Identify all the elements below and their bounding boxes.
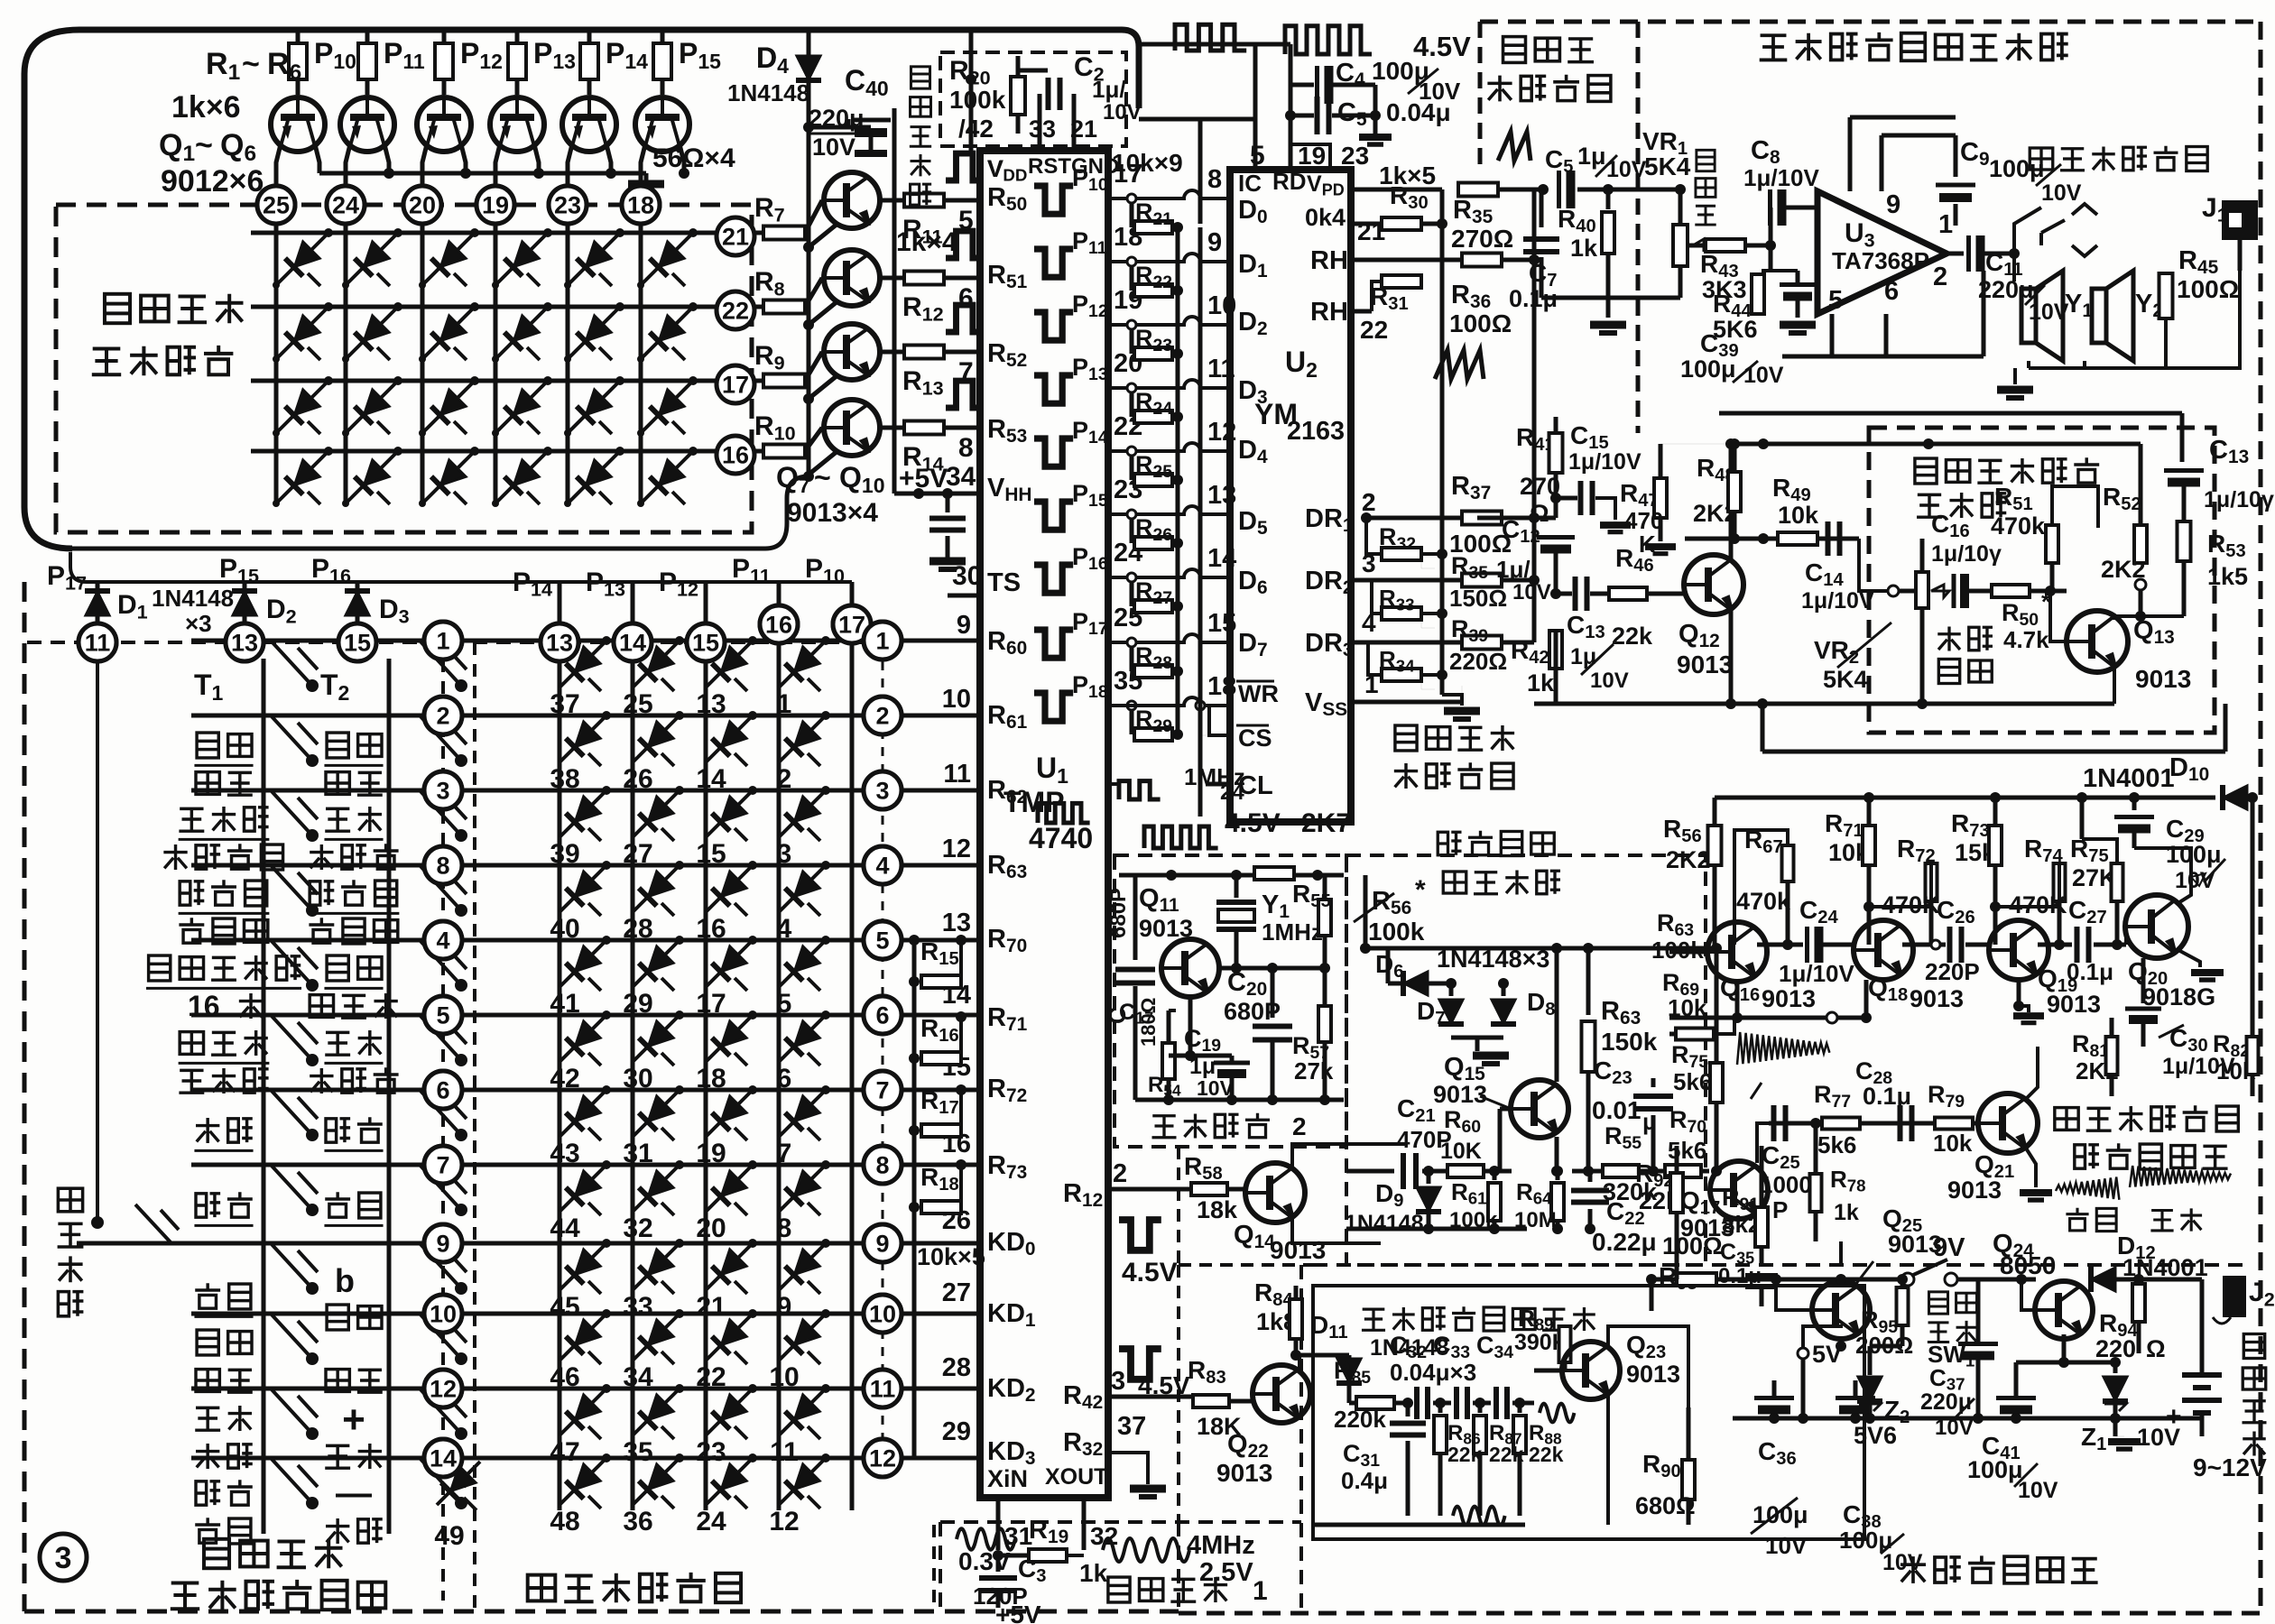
svg-text:10k×5: 10k×5 [917, 1243, 985, 1270]
svg-text:1N4148×3: 1N4148×3 [1437, 946, 1549, 973]
self-reset circuit box [892, 108, 897, 494]
wire matrix row 17 [251, 379, 716, 383]
svg-text:9013: 9013 [1433, 1081, 1487, 1108]
LED display matrix r3c4 [495, 381, 548, 433]
svg-text:10V: 10V [2175, 868, 2215, 893]
svg-text:100μ: 100μ [2166, 841, 2222, 868]
wire matrix column 18 [639, 223, 643, 503]
transistor Q19 9013 [1989, 920, 2048, 980]
switch T1 [271, 715, 312, 761]
wire CS jumper [1108, 704, 1178, 707]
wire bottom rail cymbal [1346, 1227, 1527, 1232]
U1 output P18 pin 35 [1034, 693, 1073, 721]
ground C7R40 [1606, 298, 1611, 318]
resistor R1 (P10 column) [296, 30, 301, 43]
diode D7 [1449, 983, 1454, 996]
svg-text:100k: 100k [1368, 918, 1425, 946]
resistors R86 R87 R88 [1438, 1403, 1443, 1413]
diode key 49 [437, 1462, 480, 1505]
wire row P18 to U2 [1108, 697, 1230, 706]
pulse glyphs P-rows [946, 153, 983, 180]
wire Q21 emitter ground [2025, 1147, 2036, 1187]
transistor Q4 9012 PNP [490, 97, 544, 152]
U1 output P16 pin 24 [1034, 565, 1073, 593]
diode column P15 D2 [243, 582, 247, 624]
svg-text:1k×6: 1k×6 [171, 90, 241, 125]
node right 3 [864, 771, 902, 809]
wire matrix row 22 [251, 305, 716, 309]
wire matrix column 24 [344, 223, 348, 503]
svg-text:2: 2 [1113, 1159, 1127, 1188]
global frame top dashed [1480, 20, 2261, 24]
diode key r10c2 [633, 1314, 680, 1361]
wire row 5 [191, 1013, 424, 1018]
diode key r7c4 [779, 1090, 826, 1137]
column P13 top [631, 582, 635, 623]
node right 11 [864, 1370, 902, 1407]
switch T2 [420, 790, 461, 835]
dashed circle column right matrix [882, 661, 884, 1453]
svg-text:100k: 100k [949, 86, 1006, 114]
resistor R8 [754, 305, 762, 309]
svg-text:28: 28 [623, 914, 652, 944]
svg-text:25: 25 [623, 689, 652, 719]
transistor Q1 9012 PNP [271, 97, 325, 152]
diode key r11c3 [706, 1389, 753, 1435]
wire Q25 [1839, 1279, 1844, 1281]
wire drum box to Q25 zone [1650, 1279, 1654, 1311]
wire circle column dashed left [441, 660, 445, 1601]
svg-text:8: 8 [958, 433, 974, 463]
svg-text:9013: 9013 [1762, 985, 1816, 1012]
svg-text:9: 9 [875, 1231, 889, 1258]
capacitor C31 0.4u [1406, 1403, 1410, 1416]
resistor R21 10k [1130, 198, 1134, 227]
wire row 12 [191, 1387, 424, 1391]
ground (Q1-Q6 bus) [628, 180, 664, 189]
svg-text:48: 48 [550, 1507, 579, 1536]
vertical label add drum sound [58, 1188, 82, 1212]
svg-text:~: ~ [195, 128, 213, 162]
capacitor C3 120P [993, 1550, 1003, 1561]
diode key r10c3 [706, 1314, 753, 1361]
wire 4.5V 2K7 rail [1119, 873, 1344, 878]
svg-text:10: 10 [942, 685, 971, 714]
dashed box edge between matrices [473, 642, 476, 1611]
svg-text:21: 21 [722, 224, 749, 251]
svg-text:150k: 150k [1601, 1028, 1658, 1056]
svg-text:100Ω: 100Ω [2177, 275, 2239, 303]
resistor R34 [1382, 669, 1421, 681]
wire row P13 to U2 [1108, 380, 1230, 388]
capacitor C13 1u/10V [1550, 588, 1561, 599]
wire emitter to bus [809, 224, 837, 247]
svg-text:23: 23 [554, 192, 581, 219]
wire VR1 wiper to R43 [1689, 244, 1706, 248]
wire 9V row [1651, 1278, 1902, 1282]
resistor R22 10k [1130, 262, 1134, 291]
wire Q12 collector [1729, 444, 1734, 561]
svg-text:CS: CS [1238, 724, 1272, 752]
wire column P10 [850, 643, 855, 1510]
capacitor C12 1u/10V [1537, 535, 1575, 540]
svg-text:1: 1 [1253, 1576, 1268, 1606]
diode key r8c3 [706, 1165, 753, 1212]
node pin 17 [717, 365, 754, 403]
wire legs [276, 144, 281, 186]
diode key r2c1 [560, 715, 606, 762]
svg-text:45: 45 [550, 1292, 579, 1322]
switch T2 [420, 1389, 461, 1434]
svg-text:180Ω: 180Ω [1137, 998, 1160, 1047]
drum box [1313, 1286, 1864, 1539]
svg-text:22k: 22k [1612, 623, 1653, 650]
wire Q15 emitter collector [1555, 1137, 1559, 1171]
svg-text:27: 27 [942, 1278, 971, 1307]
capacitor C26 220P [1902, 943, 1946, 947]
wire D4 column [807, 30, 811, 476]
noise icon drum sound [2056, 1177, 2119, 1200]
svg-text:10V: 10V [1765, 1532, 1808, 1559]
transistor Q13 9013 [2067, 611, 2128, 672]
wire row 8 [191, 863, 424, 868]
capacitor C37 220u/10V [1958, 1342, 1998, 1346]
node left 10 [424, 1295, 462, 1333]
wire top rail cymbal [1365, 946, 1716, 951]
svg-text:40: 40 [550, 914, 579, 944]
svg-text:5k6: 5k6 [1673, 1068, 1712, 1095]
wire Q14 emitter [1292, 1217, 1381, 1243]
diode key r10c1 [560, 1314, 606, 1361]
wire pull rail [1176, 227, 1180, 735]
wire XIN XOUT to clock1 [996, 1498, 1001, 1550]
resistor R6 (P15 column) [661, 30, 665, 43]
capacitor C11 220u/10V [1947, 252, 1964, 256]
label cymbal trigger [1438, 832, 1461, 855]
svg-text:0.4μ: 0.4μ [1341, 1467, 1388, 1494]
potentiometer VR2 5K4 [1916, 572, 1928, 608]
capacitor C5 0.04u [1285, 110, 1296, 121]
svg-text:2: 2 [436, 703, 449, 730]
sine 0.3V [957, 1528, 1015, 1549]
svg-text:XiN: XiN [987, 1465, 1028, 1492]
diode D6 [1388, 982, 1448, 986]
wire Q25 base node [1716, 1278, 1812, 1282]
svg-text:12: 12 [942, 835, 971, 863]
reset box dashed [940, 52, 1126, 146]
wire D7 D8 join [1451, 1036, 1503, 1040]
transistor Q22 9013 [1253, 1365, 1310, 1423]
wire matrix row 16 [251, 449, 716, 454]
svg-text:2: 2 [1933, 263, 1947, 291]
LED display matrix r4c3 [422, 451, 475, 503]
label drum trigger & osc [1362, 1309, 1385, 1330]
label keyboard control matrix [528, 1575, 556, 1601]
wire to VR2 row [1859, 539, 1888, 591]
wire Q13 emitter [2113, 664, 2116, 704]
wire R55 320k [1572, 1169, 1603, 1174]
node pins redraw left matrix [79, 623, 116, 661]
resistor R5 (P14 column) [587, 30, 592, 43]
LED display matrix r1c3 [422, 233, 475, 285]
svg-text:6: 6 [436, 1077, 449, 1104]
resistor R39 220ohm [1462, 636, 1502, 650]
diode D9 label wire [1177, 1147, 1180, 1265]
transistor Q17 9013 [1710, 1161, 1768, 1219]
svg-text:22: 22 [1360, 316, 1388, 344]
node left 1 [424, 622, 462, 660]
svg-text:43: 43 [550, 1139, 579, 1168]
wire link to accomp rail [1761, 704, 1765, 752]
svg-text:21: 21 [1070, 115, 1097, 143]
svg-text:5: 5 [436, 1002, 449, 1029]
diode key r9c2 [633, 1243, 680, 1290]
svg-text:26: 26 [623, 764, 652, 794]
svg-text:47: 47 [550, 1437, 579, 1467]
wire top feed line y645 [87, 580, 852, 584]
svg-text:150Ω: 150Ω [1449, 585, 1507, 612]
capacitor C17 680P [1115, 970, 1155, 983]
svg-text:XOUT: XOUT [1045, 1464, 1107, 1490]
svg-text:IC: IC [1238, 170, 1262, 197]
switch T2 [420, 1243, 461, 1288]
wire Q11 collector row [1219, 966, 1323, 971]
noise icon cymbal sound [2130, 1166, 2231, 1187]
transistor Q9 9013 [824, 324, 880, 380]
svg-text:9: 9 [1207, 228, 1222, 257]
svg-text:1k: 1k [1079, 1559, 1108, 1587]
svg-text:10k×9: 10k×9 [1112, 149, 1183, 177]
ground C1 [929, 558, 966, 566]
label accomp preamp circuit [1915, 458, 1937, 484]
svg-text:5k6: 5k6 [1817, 1131, 1856, 1158]
svg-text:8: 8 [436, 853, 449, 880]
node pins redraw keyboard cols [541, 623, 578, 661]
svg-text:5V6: 5V6 [1854, 1422, 1897, 1449]
wire matrix column 25 [274, 223, 279, 503]
wire clock2 bottom rail [1135, 1098, 1344, 1103]
sine 4MHz [1103, 1538, 1189, 1562]
svg-text:3: 3 [1111, 1367, 1125, 1396]
label melodic output circuit [1503, 37, 1526, 63]
svg-text:100μ: 100μ [1680, 355, 1736, 383]
resistor R15 10k [909, 976, 920, 987]
svg-text:1: 1 [777, 689, 792, 719]
dashed rail 9V row [1179, 1263, 1227, 1267]
wire bottom rail Q16 row [1669, 1016, 1866, 1020]
svg-text:4MHz: 4MHz [1187, 1531, 1255, 1560]
svg-text:220P: 220P [1925, 958, 1980, 985]
svg-text:11: 11 [85, 630, 111, 657]
svg-text:5k6: 5k6 [1668, 1137, 1706, 1164]
svg-text:9013: 9013 [1888, 1231, 1942, 1258]
svg-text:680P: 680P [1106, 888, 1131, 938]
svg-text:220Ω: 220Ω [1449, 648, 1507, 675]
node right 8 [864, 1146, 902, 1184]
LED display matrix r4c5 [568, 451, 620, 503]
LED display matrix r3c3 [422, 381, 475, 433]
wire corner x1262 to x1330 [1139, 117, 1200, 122]
svg-text:~: ~ [242, 47, 260, 81]
svg-text:8: 8 [1207, 165, 1222, 194]
svg-text:42: 42 [550, 1064, 579, 1093]
diode key r8c4 [779, 1165, 826, 1212]
node right 5 [864, 921, 902, 959]
svg-text:1N4148: 1N4148 [727, 79, 809, 106]
node left 3 [424, 771, 462, 809]
svg-text:24: 24 [696, 1507, 726, 1536]
svg-text:29: 29 [623, 989, 652, 1019]
node right 1 [864, 622, 902, 660]
svg-text:1μ/10V: 1μ/10V [1779, 960, 1855, 987]
transistor Q12 9013 [1684, 555, 1743, 614]
switch T1 [271, 1090, 312, 1135]
svg-text:5K6: 5K6 [1713, 316, 1758, 343]
svg-text:9013×4: 9013×4 [787, 498, 878, 528]
svg-text:1k×4: 1k×4 [896, 227, 957, 257]
svg-text:100μ: 100μ [1967, 1456, 2023, 1483]
svg-text:b: b [335, 1262, 355, 1299]
transistor Q8 9013 [824, 250, 880, 306]
svg-text:8: 8 [875, 1152, 889, 1179]
svg-text:8: 8 [777, 1213, 792, 1243]
resistor R33 [1382, 607, 1421, 620]
svg-text:7: 7 [436, 1152, 449, 1179]
transistor Q3 9012 PNP [417, 97, 471, 152]
diode key r5c1 [560, 940, 606, 987]
wire row 1 [191, 639, 424, 643]
resistor R54 180ohm [1162, 1043, 1175, 1079]
resistor R7 [754, 231, 762, 235]
svg-text:17: 17 [838, 612, 865, 639]
jack J2 [2223, 1276, 2246, 1317]
LED display matrix r2c6 [641, 307, 693, 359]
svg-text:2: 2 [777, 764, 792, 794]
resistor R23 10k [1130, 325, 1134, 354]
svg-text:2K7: 2K7 [1301, 808, 1351, 838]
node pin 23 [549, 186, 587, 224]
switch T2 [420, 865, 461, 910]
switch T1 [271, 641, 312, 686]
crystal Y1 1MHz [1235, 875, 1239, 898]
label accomp volume [1937, 627, 1961, 651]
resistor R70 5k6 [1639, 1169, 1665, 1174]
wire row 7 [191, 1163, 424, 1167]
diode key r11c1 [560, 1389, 606, 1435]
svg-text:Ω: Ω [2146, 1335, 2166, 1362]
wire VSS [1354, 700, 1462, 705]
svg-text:6: 6 [777, 1064, 792, 1093]
resistor R78 1k [1810, 1118, 1821, 1129]
svg-text:37: 37 [550, 689, 579, 719]
transistor Q25 9013 regulator [1812, 1281, 1870, 1339]
diode key r1c3 [706, 641, 753, 687]
svg-text:9013: 9013 [1216, 1459, 1272, 1487]
svg-text:1μ/: 1μ/ [1496, 556, 1531, 583]
diode key r6c3 [706, 1015, 753, 1062]
resistor R61 100k [1493, 1171, 1497, 1180]
svg-text:220μ: 220μ [809, 105, 865, 132]
node 15 [338, 623, 376, 661]
svg-text:16: 16 [722, 442, 749, 469]
label control panel display matrix [105, 294, 130, 323]
svg-text:2: 2 [875, 703, 889, 730]
capacitor C13' 1u/10V [2164, 468, 2204, 473]
capacitor C2 1u/10V [1049, 78, 1060, 110]
svg-text:5: 5 [777, 989, 792, 1019]
transistor Q20 9018G [2125, 895, 2188, 958]
diode key r7c1 [560, 1090, 606, 1137]
label rhythm source preamp [2055, 1108, 2078, 1130]
svg-text:1μ/10V: 1μ/10V [1743, 164, 1820, 191]
IC U1 TMP4740 [980, 151, 1108, 1498]
svg-text:14: 14 [696, 764, 726, 794]
diode key r4c1 [560, 865, 606, 912]
svg-text:×3: ×3 [185, 610, 212, 637]
switch add-drum [96, 642, 99, 1223]
svg-text:2: 2 [1292, 1112, 1307, 1140]
svg-text:28: 28 [942, 1353, 971, 1382]
wire Q19 emitter ground [2017, 980, 2021, 1006]
vertical rail x1598 [1440, 224, 1445, 695]
svg-text:25: 25 [263, 192, 290, 219]
wire emitter to bus [809, 451, 837, 475]
column P14 top [558, 582, 562, 623]
node 13 [226, 623, 264, 661]
resistor R28 10k [1130, 642, 1134, 671]
node pin 20 [403, 186, 441, 224]
wire column P12 [704, 661, 708, 1510]
svg-text:9013: 9013 [1910, 985, 1964, 1012]
function labels column A and B [197, 733, 218, 758]
column P12 top [704, 582, 708, 623]
diode key r3c2 [633, 790, 680, 837]
wire CL entry [1206, 782, 1230, 787]
wire matrix row 21 [251, 231, 716, 235]
1MHz label pulse row [1038, 803, 1090, 823]
wire Q15 base [1500, 1107, 1511, 1112]
svg-text:1: 1 [436, 628, 449, 655]
ground R34 [1442, 695, 1462, 706]
svg-text:23: 23 [1341, 142, 1369, 170]
resistor R64 10M [1556, 1171, 1560, 1180]
svg-text:20: 20 [696, 1213, 726, 1243]
resistor R13 1k [880, 350, 906, 355]
svg-text:3: 3 [777, 839, 792, 869]
capacitor C21 470P in series [1346, 1169, 1394, 1174]
ground amp [2013, 368, 2017, 384]
noise burst icon cymbal [1737, 1032, 1829, 1065]
svg-text:9013: 9013 [1677, 651, 1733, 678]
wire Q24 emitter down [2062, 1334, 2067, 1362]
resistor R57 27k [1318, 1006, 1331, 1042]
svg-text:1N4148: 1N4148 [152, 585, 234, 612]
wire Q20 collector [2134, 848, 2191, 904]
resistor R2 (P11 column) [365, 30, 370, 43]
label audio power amp output circuit [1760, 35, 1788, 60]
resistor R75 5k6 [1715, 948, 1719, 1063]
svg-text:14: 14 [430, 1445, 457, 1472]
svg-text:10V: 10V [1103, 100, 1142, 125]
diode key r6c1 [560, 1015, 606, 1062]
svg-text:10: 10 [869, 1301, 896, 1328]
LED display matrix r2c2 [346, 307, 398, 359]
node left 14 [424, 1439, 462, 1477]
svg-text:2: 2 [1362, 489, 1375, 516]
5V tap [1798, 1348, 1808, 1359]
switch T1 [271, 1458, 312, 1503]
svg-text:31: 31 [623, 1139, 652, 1168]
